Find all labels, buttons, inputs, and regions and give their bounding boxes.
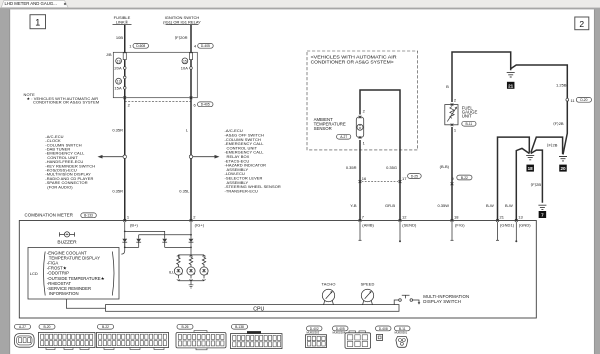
wire meter pin21 up to ground 18: [486, 137, 529, 220]
wire fusible link to J/B, 10B: [116, 25, 125, 53]
svg-text:10A: 10A: [181, 65, 189, 70]
svg-text:MU803501: MU803501: [395, 331, 408, 335]
svg-text:2: 2: [579, 19, 584, 29]
svg-text:B-20: B-20: [44, 325, 51, 329]
svg-text:MU802503: MU802503: [307, 331, 320, 335]
svg-text:D-405: D-405: [201, 103, 210, 107]
page number 2: [575, 17, 589, 30]
wire connector 11 down to ground 20: [553, 101, 567, 154]
svg-text:(AMB): (AMB): [362, 222, 374, 227]
wire ignition switch to J/B, 20R: [175, 25, 191, 53]
svg-text:D-405: D-405: [336, 327, 345, 331]
svg-text:(IG+): (IG+): [195, 222, 205, 227]
svg-text:1.25B: 1.25B: [556, 82, 567, 87]
svg-text:⟨F⟩20R: ⟨F⟩20R: [175, 35, 188, 40]
svg-text:LINK①: LINK①: [116, 19, 129, 24]
meter pin 13 (GND): [515, 215, 531, 243]
ILL branch 1 resistor and LED: [174, 255, 182, 280]
junction block J/B: [106, 52, 197, 97]
wire labels 0.35R / 0.35G: [346, 165, 397, 170]
wire fuel gauge pin2 up and right, B: [446, 52, 511, 102]
fuse 15 10A: [181, 53, 193, 98]
svg-text:A-27: A-27: [19, 325, 26, 329]
connector B-20 pinout: [39, 324, 96, 349]
label FUSIBLE LINK (1): [113, 15, 132, 25]
svg-text:B-22: B-22: [102, 325, 109, 329]
svg-text:B-W: B-W: [486, 203, 494, 208]
svg-text:B-133: B-133: [84, 214, 93, 218]
svg-text:D-608: D-608: [136, 44, 145, 48]
svg-text:20: 20: [560, 166, 566, 171]
wire B+ down to combination meter, 0.35R: [112, 98, 124, 221]
svg-text:7: 7: [541, 213, 544, 218]
connector 9 B-22: [451, 175, 472, 185]
label IGNITION SWITCH (IG1) OR IG1 RELAY: [163, 15, 201, 25]
svg-text:B-11: B-11: [466, 122, 473, 126]
svg-text:CONDITIONER OR AS&G SYSTEM: CONDITIONER OR AS&G SYSTEM: [33, 100, 99, 105]
right ECU list: [225, 128, 281, 193]
svg-text:0.35R: 0.35R: [346, 165, 357, 170]
connector B-11 pinout: [395, 326, 411, 347]
ILL ground: [189, 281, 194, 288]
svg-text:SPEED: SPEED: [361, 282, 375, 287]
wire branch to connector 11, 1.25B: [511, 65, 568, 98]
svg-text:(B+): (B+): [130, 222, 139, 227]
wire sensor pin2 loop to right branch: [360, 90, 400, 221]
svg-text:10B: 10B: [116, 35, 123, 40]
tab LHD METER AND GAUG...: [1, 1, 68, 8]
svg-text:-TRANSFER-ECU: -TRANSFER-ECU: [225, 188, 259, 193]
wire pin1 internal with diodes: [121, 222, 125, 254]
fuel gauge unit B-11: [445, 98, 478, 133]
svg-text:0.35R: 0.35R: [112, 128, 123, 133]
connector 1 D-608: [129, 43, 148, 48]
node on B+ wire: [123, 155, 126, 158]
J/B exit pin 6, connector D-405: [190, 96, 213, 107]
svg-text:×: ×: [64, 2, 67, 7]
speed gauge: [361, 282, 375, 305]
diode rail 1: [125, 231, 165, 238]
svg-text:(GND1): (GND1): [500, 222, 515, 227]
svg-text:(IG1) OR IG1 RELAY: (IG1) OR IG1 RELAY: [163, 19, 201, 24]
meter pin 2 (IG+): [190, 215, 205, 228]
wire LCD to CPU: [66, 299, 105, 308]
svg-text:BUZZER: BUZZER: [57, 240, 77, 246]
diode D4: [189, 222, 194, 255]
connector B-26 pinout: [176, 324, 226, 350]
svg-text:(FOR AUDIO): (FOR AUDIO): [47, 184, 73, 189]
meter pin 7 (AMB): [359, 215, 375, 241]
svg-text:D-402: D-402: [310, 327, 319, 331]
svg-text:21: 21: [508, 83, 514, 88]
svg-text:D-20: D-20: [580, 98, 587, 102]
J/B exit pin 2: [123, 96, 130, 107]
wire meter pin13 up to ground 18: [505, 148, 529, 220]
connector D-402 pinout: [306, 326, 327, 348]
svg-text:18: 18: [528, 166, 534, 171]
svg-text:B-11: B-11: [399, 327, 406, 331]
connector 4 D-405: [194, 43, 213, 48]
diode D2: [125, 239, 141, 248]
svg-text:(GND): (GND): [519, 222, 531, 227]
LCD box: [28, 248, 119, 300]
dashed option box: vehicles with automatic air conditioner: [307, 51, 418, 150]
meter pin 12 (SEND): [399, 215, 417, 243]
ground 20: [559, 157, 567, 172]
dashed link below J/B: [125, 100, 191, 102]
illumination lamp group rails: [169, 255, 204, 281]
fuse 13 15A: [114, 76, 126, 98]
svg-text:LCD: LCD: [30, 271, 38, 276]
ambient temperature sensor A-27: [314, 109, 366, 146]
wire fuel gauge pin1 down to meter pin18: [437, 127, 452, 221]
svg-text:CPU: CPU: [253, 306, 264, 312]
svg-text:CONDITIONER OR AS&G SYSTEM>: CONDITIONER OR AS&G SYSTEM>: [311, 59, 394, 64]
svg-text:B-22: B-22: [461, 176, 468, 180]
connector D-408 pinout: [376, 326, 392, 340]
connector B-22 pinout: [97, 324, 169, 349]
tab bar: [0, 0, 600, 8]
svg-text:0.35R: 0.35R: [112, 189, 123, 194]
wire link ground 18 to ground 7 branch: [531, 143, 558, 203]
svg-text:13: 13: [117, 80, 121, 84]
multi-information display switch: [394, 294, 469, 305]
ILL branch 3 resistor and LED: [200, 255, 208, 280]
connector A-27 pinout: [15, 324, 35, 347]
connector 11 D-20: [566, 97, 592, 102]
svg-text:B-138: B-138: [235, 325, 244, 329]
combination meter label B-133: [25, 213, 97, 218]
svg-text:LHD METER AND GAUG...: LHD METER AND GAUG...: [5, 1, 57, 6]
svg-text:19: 19: [117, 59, 121, 63]
svg-text:Y-B: Y-B: [350, 203, 357, 208]
wire sensor pin1 down to meter pin7: [359, 140, 361, 221]
svg-text:21: 21: [500, 215, 505, 220]
svg-text:15A: 15A: [114, 86, 122, 91]
diode D1: [122, 239, 127, 248]
connector B-138 pinout: [231, 324, 283, 348]
svg-text:13: 13: [518, 215, 523, 220]
page number 1: [30, 15, 46, 29]
fuse 19 20A: [114, 53, 126, 76]
svg-text:16: 16: [362, 176, 367, 181]
svg-text:⟨F⟩2B: ⟨F⟩2B: [553, 121, 564, 126]
connector D-405 pinout: [333, 326, 371, 348]
meter pin 21 (GND1): [496, 215, 515, 241]
svg-text:UNIT: UNIT: [462, 114, 472, 119]
diode rail 2: [139, 234, 192, 239]
svg-text:12: 12: [402, 215, 407, 220]
ground 18: [526, 155, 534, 171]
combination meter box: [19, 221, 536, 319]
svg-text:DISPLAY SWITCH: DISPLAY SWITCH: [423, 299, 461, 304]
tacho gauge: [322, 282, 336, 305]
NOTE text: [24, 92, 100, 104]
svg-text:TACHO: TACHO: [322, 282, 336, 287]
diode D3: [162, 239, 191, 248]
svg-text:1: 1: [35, 18, 40, 28]
wire IG+ down to combination meter, L / 0.35L: [179, 98, 191, 221]
svg-text:B: B: [446, 84, 449, 89]
svg-text:COMBINATION METER: COMBINATION METER: [25, 213, 73, 218]
svg-text:SENSOR: SENSOR: [314, 126, 332, 131]
svg-text:(B-B): (B-B): [440, 164, 450, 169]
wire link ground 20 to ground 18: [531, 137, 563, 154]
svg-text:D-405: D-405: [201, 44, 210, 48]
arrow to right ECU list: [193, 155, 220, 159]
svg-text:INFORMATION: INFORMATION: [49, 291, 79, 296]
svg-text:D-25: D-25: [411, 174, 418, 178]
ground 7: [538, 205, 546, 218]
svg-text:0.35W: 0.35W: [437, 203, 449, 208]
svg-text:0.35G: 0.35G: [386, 165, 397, 170]
ground 21: [507, 73, 515, 89]
svg-text:15: 15: [183, 59, 187, 63]
LCD function list: [47, 251, 105, 296]
svg-text:⟨F⟩2B: ⟨F⟩2B: [547, 143, 558, 148]
svg-text:20A: 20A: [114, 65, 122, 70]
node on IG+ wire: [189, 155, 192, 158]
svg-text:0.35L: 0.35L: [179, 189, 190, 194]
meter pin 18 (F/G): [451, 215, 466, 241]
wire labels Y-B / GR-B: [350, 203, 395, 208]
svg-text:17: 17: [402, 176, 407, 181]
svg-text:GR-B: GR-B: [385, 203, 395, 208]
svg-text:B-W: B-W: [505, 203, 513, 208]
svg-text:18: 18: [454, 215, 459, 220]
connector 16 / 17 D-25: [359, 174, 422, 183]
meter pin 1 (B+): [123, 215, 138, 228]
svg-text:(SEND): (SEND): [402, 222, 417, 227]
svg-text:J/B: J/B: [106, 53, 112, 57]
ILL branch 2 resistor and LED: [187, 255, 195, 280]
svg-text:D-408: D-408: [379, 327, 388, 331]
left ECU list: [45, 134, 95, 189]
svg-text:B-26: B-26: [182, 325, 189, 329]
buzzer: [57, 232, 77, 246]
arrow to left ECU list: [98, 155, 124, 159]
svg-text:MU802504: MU802504: [333, 331, 346, 335]
CPU box: [106, 305, 400, 313]
svg-text:A-27: A-27: [340, 135, 347, 139]
svg-text:(F/G): (F/G): [455, 222, 465, 227]
svg-text:⟨F⟩2B: ⟨F⟩2B: [531, 182, 542, 187]
